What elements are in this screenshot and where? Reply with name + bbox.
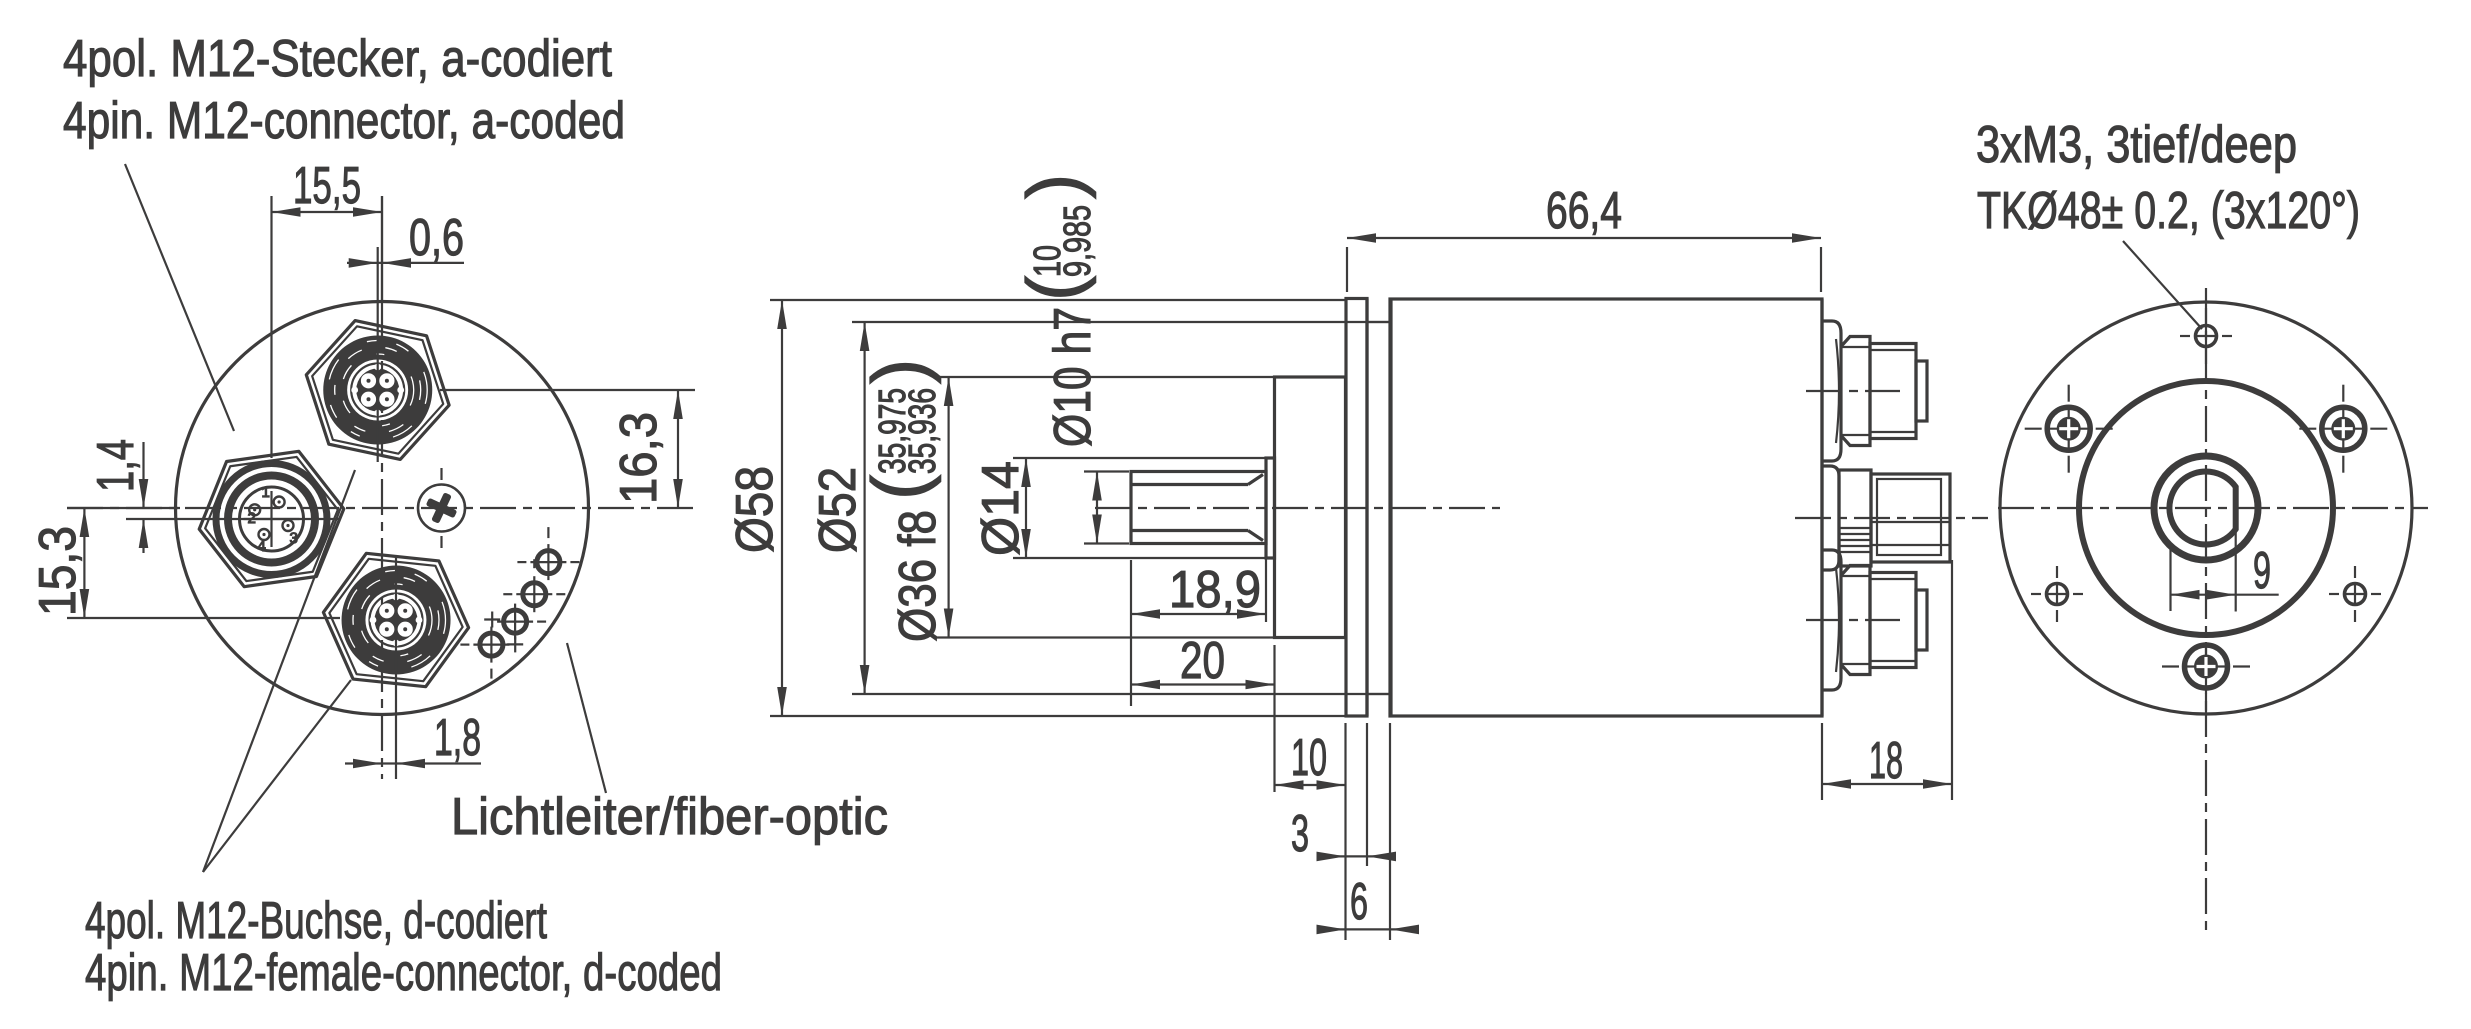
hub D36 f8 — [1275, 377, 1346, 638]
M12 female connector B (d-coded) — [317, 550, 475, 691]
fiber-optic hole 2 — [503, 559, 565, 612]
main shaft centerline — [1095, 507, 1500, 509]
dimension D58 — [726, 300, 1345, 716]
center cross — [270, 491, 272, 547]
leader to female connector A — [203, 470, 355, 872]
svg-text:Ø36 f8: Ø36 f8 — [889, 510, 947, 642]
svg-text:1,4: 1,4 — [87, 439, 145, 492]
M12 male connector S (Stecker, pins) — [190, 446, 352, 591]
svg-text:3: 3 — [1291, 805, 1309, 863]
horizontal centerline of front view — [67, 507, 700, 509]
vertical centerline — [2205, 288, 2207, 930]
svg-text:4pin. M12-female-connector, d-: 4pin. M12-female-connector, d-coded — [85, 944, 722, 1002]
svg-text:4pin. M12-connector, a-coded: 4pin. M12-connector, a-coded — [63, 92, 625, 150]
svg-text:Ø58: Ø58 — [726, 466, 784, 553]
svg-text:1,8: 1,8 — [434, 709, 481, 767]
dimension 9 — [2171, 529, 2279, 612]
svg-text:0,6: 0,6 — [409, 209, 464, 267]
svg-text:18,9: 18,9 — [1169, 561, 1261, 619]
svg-text:15,3: 15,3 — [29, 526, 87, 616]
dimension 20 — [1131, 632, 1275, 792]
front face circle D58 — [176, 302, 589, 715]
dimension D36 f8 (35,975/35,936) — [857, 359, 1274, 642]
hub circle D14 — [2154, 456, 2258, 560]
bore D10 with flat — [2169, 471, 2235, 544]
flange D58 — [1346, 299, 1367, 717]
svg-text:18: 18 — [1869, 732, 1903, 790]
dimension 66,4 — [1347, 182, 1821, 292]
fiber-optic hole 3 — [497, 604, 546, 640]
middle connector centerline — [1795, 517, 1988, 519]
svg-text:(: ( — [857, 475, 942, 500]
rear inner circle D36 — [2079, 381, 2333, 635]
plus tick mark — [484, 612, 500, 628]
svg-text:Lichtleiter/fiber-optic: Lichtleiter/fiber-optic — [451, 788, 888, 846]
rear connector middle (male M12) — [1822, 466, 1950, 570]
plus tick mark — [507, 636, 523, 652]
svg-text:15,5: 15,5 — [293, 157, 361, 215]
M3 hole lower-left — [2031, 566, 2083, 622]
dimension 3 — [1291, 723, 1396, 866]
svg-text:16,3: 16,3 — [610, 412, 668, 504]
dimension 16,3 — [440, 390, 695, 508]
leader to top M3 hole — [2123, 241, 2202, 329]
vertical centerline of front view — [381, 196, 383, 302]
svg-text:4pol. M12-Stecker, a-codiert: 4pol. M12-Stecker, a-codiert — [63, 30, 612, 88]
leader to M12 male connector (Stecker) — [125, 164, 234, 431]
dimension 1,4 — [87, 439, 148, 553]
dimension 0,6 — [347, 209, 464, 462]
neck D52 — [1367, 322, 1390, 694]
svg-text:Ø14: Ø14 — [972, 461, 1030, 556]
horizontal centerline — [1998, 507, 2428, 509]
leader to female connector B — [203, 680, 351, 872]
pins — [274, 497, 285, 508]
svg-text:9,985: 9,985 — [1057, 205, 1099, 277]
rear face circle D58 — [2000, 302, 2412, 714]
rear connector bottom (female M12) — [1806, 550, 1927, 690]
mounting screw hole upper-left — [2025, 385, 2113, 473]
d-code contact pattern — [356, 369, 399, 412]
dimension 6 — [1317, 723, 1420, 940]
svg-text:3xM3, 3tief/deep: 3xM3, 3tief/deep — [1976, 116, 2297, 174]
dimension 15,3 — [29, 508, 89, 618]
horizontal centerline of connector B (y=618) — [67, 617, 340, 619]
fiber-optic hole 1 — [517, 527, 579, 580]
svg-text:9: 9 — [2253, 542, 2271, 600]
dimension 1,8 — [345, 558, 481, 779]
svg-text:1: 1 — [262, 484, 270, 501]
horizontal centerline of connector S (y=519) — [126, 518, 340, 520]
svg-text:10: 10 — [1291, 729, 1327, 787]
leader to fiber-optic holes — [567, 643, 606, 793]
svg-text:4pol. M12-Buchse, d-codiert: 4pol. M12-Buchse, d-codiert — [85, 892, 547, 950]
dimension 18 — [1822, 560, 1952, 800]
svg-text:Ø10 h7: Ø10 h7 — [1044, 307, 1102, 447]
mounting screw hole upper-right — [2299, 385, 2387, 473]
M3 hole lower-right — [2329, 566, 2381, 622]
svg-text:TKØ48± 0.2, (3x120°): TKØ48± 0.2, (3x120°) — [1977, 182, 2360, 240]
svg-text:(: ( — [1012, 276, 1097, 301]
screw (Phillips) — [418, 468, 465, 548]
shaft collar D14 — [1266, 458, 1275, 558]
rear connector top (female M12) — [1806, 321, 1927, 461]
M12 female connector A (d-coded) — [293, 313, 462, 467]
svg-text:): ) — [1012, 174, 1097, 199]
svg-text:6: 6 — [1350, 873, 1368, 931]
svg-text:): ) — [857, 359, 942, 384]
svg-text:20: 20 — [1180, 632, 1225, 690]
svg-text:35,936: 35,936 — [902, 388, 944, 474]
dimension 15,5 — [272, 157, 383, 458]
svg-text:66,4: 66,4 — [1546, 182, 1622, 240]
splined shaft D10 — [1131, 472, 1266, 544]
mounting screw hole bottom — [2162, 645, 2250, 711]
dimension D14 — [972, 458, 1266, 558]
M3 hole top — [2180, 308, 2232, 364]
dimension D10 h7 (10/9,985) — [1012, 174, 1129, 544]
dimension D52 — [809, 322, 1390, 694]
fiber-optic hole 4 — [460, 627, 509, 679]
svg-text:3: 3 — [290, 530, 298, 547]
body D58 — [1390, 299, 1822, 716]
dimension 18,9 — [1131, 547, 1266, 706]
svg-text:4: 4 — [258, 538, 266, 555]
dimension 10 — [1275, 723, 1346, 940]
